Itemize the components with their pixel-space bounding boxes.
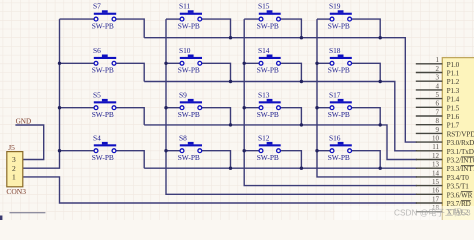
svg-text:13: 13 [432,161,440,169]
wire S15 left terminal to column3 bus [244,18,261,20]
wire S7 right terminal down to row1 net [114,19,144,38]
junction row1 x column4 drop [379,36,382,39]
wire column4 bus (to pin 14 P3.4) [317,19,417,177]
svg-text:CSDN @电子工程53: CSDN @电子工程53 [394,208,471,218]
junction row2 x column4 drop [379,80,382,83]
wire row4 net (to pin 13 P3.3) [144,167,417,169]
svg-text:P1.6: P1.6 [447,113,460,121]
svg-text:SW-PB: SW-PB [178,66,200,75]
svg-text:S17: S17 [329,90,341,99]
svg-text:S14: S14 [258,46,270,55]
pushbutton S14 SW-PB [257,46,281,75]
junction row4 x column2 drop [229,167,232,170]
svg-text:P3.5/T1: P3.5/T1 [447,183,470,191]
pushbutton S5 SW-PB [92,90,117,119]
junction column3 bus x S12 [243,149,246,152]
svg-text:SW-PB: SW-PB [92,66,114,75]
junction column2 bus x S9 [164,106,167,109]
svg-text:S7: S7 [93,2,101,11]
wire S9 right terminal down to row3 net [200,108,231,125]
svg-text:SW-PB: SW-PB [328,21,350,30]
pushbutton S8 SW-PB [178,133,202,162]
wire S16 right terminal down to row4 net [350,151,381,169]
svg-text:S19: S19 [329,2,341,11]
wire S16 left terminal to column4 bus [317,150,332,152]
svg-text:SW-PB: SW-PB [328,110,350,119]
svg-text:P3.1/TxD: P3.1/TxD [447,148,474,156]
wire S6 right terminal down to row2 net [114,63,144,81]
pin 12 stub [416,159,443,161]
svg-text:10: 10 [432,135,440,143]
svg-text:P1.5: P1.5 [447,104,460,112]
pin 5 stub [416,98,443,100]
svg-text:12: 12 [432,152,440,160]
wire S18 left terminal to column4 bus [317,62,332,64]
pin 4 stub [416,89,443,91]
pin 11 stub [416,150,443,152]
pin 2 stub [416,72,443,74]
wire S14 left terminal to column3 bus [244,62,261,64]
svg-text:CON3: CON3 [6,187,26,196]
pin 8 stub [416,124,443,126]
pin 10 stub [416,141,443,143]
svg-text:GND: GND [16,117,32,125]
wire column1 bus (to J5 pin 2) [23,19,60,168]
pin 18 stub [416,211,443,213]
svg-text:SW-PB: SW-PB [257,66,279,75]
svg-text:11: 11 [432,143,439,151]
svg-text:J5: J5 [8,143,15,152]
wire S9 left terminal to column2 bus [166,107,182,109]
wire S8 left terminal to column2 bus [166,150,182,152]
svg-text:S9: S9 [179,90,187,99]
svg-text:SW-PB: SW-PB [92,110,114,119]
junction row4 x column4 drop [379,167,382,170]
svg-text:P1.2: P1.2 [447,78,460,86]
pin 15 stub [416,185,443,187]
svg-text:9: 9 [436,126,440,134]
junction column3 bus x S13 [243,106,246,109]
pushbutton S10 SW-PB [178,46,202,75]
svg-text:SW-PB: SW-PB [328,153,350,162]
svg-text:P3.0/RxD: P3.0/RxD [447,139,474,147]
junction row2 x column2 drop [229,80,232,83]
svg-text:3: 3 [12,155,16,164]
wire S18 right terminal down to row2 net [350,63,381,81]
svg-text:1: 1 [12,173,16,182]
junction column4 bus x S18 [315,62,318,65]
junction column4 bus x S17 [315,106,318,109]
pin 3 stub [416,80,443,82]
svg-text:3: 3 [436,74,440,82]
pin 6 stub [416,106,443,108]
junction column2 bus x S10 [164,62,167,65]
svg-text:P1.1: P1.1 [447,70,460,78]
wire column2 bus (to pin 16 P3.6) [166,19,417,194]
pushbutton S15 SW-PB [257,2,281,31]
svg-text:SW-PB: SW-PB [328,66,350,75]
svg-text:6: 6 [436,100,440,108]
wire S5 right terminal down to row3 net [114,108,144,125]
pushbutton S18 SW-PB [328,46,352,75]
junction row3 x column3 drop [300,123,303,126]
svg-text:SW-PB: SW-PB [178,21,200,30]
svg-text:SW-PB: SW-PB [257,21,279,30]
wire S13 left terminal to column3 bus [244,107,261,109]
svg-text:7: 7 [436,108,440,116]
wire S6 left terminal to column1 bus [60,62,97,64]
wire S17 right terminal down to row3 net [350,108,381,125]
wire row2 net (to pin 11 P3.1) [144,82,417,151]
pin 13 stub [416,167,443,169]
svg-text:16: 16 [432,187,440,195]
junction column1 bus x S6 [58,62,61,65]
wire S7 left terminal to column1 bus [60,18,97,20]
pushbutton S11 SW-PB [178,2,202,31]
pushbutton S12 SW-PB [257,133,281,162]
svg-text:5: 5 [436,91,440,99]
corner mark bottom left [0,216,2,221]
svg-text:RST/VPD: RST/VPD [447,130,474,138]
junction row3 x column4 drop [379,123,382,126]
svg-text:S11: S11 [179,2,191,11]
wire S4 left terminal to column1 bus [60,150,97,152]
svg-text:P3.6/WR: P3.6/WR [447,191,473,199]
junction column2 bus x S8 [164,149,167,152]
junction row3 x column2 drop [229,123,232,126]
svg-text:SW-PB: SW-PB [257,110,279,119]
svg-text:P1.4: P1.4 [447,96,460,104]
wire S15 right terminal down to row1 net [279,19,302,38]
IC header box (MCU pins) [442,58,474,228]
pushbutton S7 SW-PB [92,2,117,31]
pushbutton S16 SW-PB [328,133,352,162]
wire S14 right terminal down to row2 net [279,63,302,81]
wire GND net to J5 pin 3 [15,125,43,160]
wire S8 right terminal down to row4 net [200,151,231,169]
svg-text:P3.3/INT1: P3.3/INT1 [447,165,474,173]
svg-text:14: 14 [432,169,440,177]
svg-text:S6: S6 [93,46,101,55]
pin 7 stub [416,115,443,117]
junction column4 bus x S16 [315,149,318,152]
wire S12 right terminal down to row4 net [279,151,302,169]
svg-text:SW-PB: SW-PB [92,21,114,30]
svg-text:S15: S15 [258,2,270,11]
pin 9 stub [416,132,443,134]
wire row3 net (to pin 12 P3.2) [144,125,417,160]
svg-text:2: 2 [12,164,16,173]
svg-text:P3.4/T0: P3.4/T0 [447,174,470,182]
pin 17 stub [416,202,443,204]
wire S11 right terminal down to row1 net [200,19,231,38]
svg-text:S13: S13 [258,90,270,99]
wire J5 pin 1 to pin 17 P3.7 [23,177,417,203]
svg-text:P1.0: P1.0 [447,61,460,69]
wire S19 right terminal down to row1 net [350,19,381,38]
wire S5 left terminal to column1 bus [60,107,97,109]
pushbutton S9 SW-PB [178,90,202,119]
svg-text:P1.3: P1.3 [447,87,460,95]
wire S4 right terminal down to row4 net [114,151,144,169]
pushbutton S4 SW-PB [92,133,117,162]
pushbutton S19 SW-PB [328,2,352,31]
svg-text:2: 2 [436,65,440,73]
svg-text:S8: S8 [179,133,187,142]
pushbutton S17 SW-PB [328,90,352,119]
pin 16 stub [416,193,443,195]
svg-text:8: 8 [436,117,440,125]
svg-text:S4: S4 [93,133,101,142]
svg-text:S5: S5 [93,90,101,99]
junction row2 x column3 drop [300,80,303,83]
border tick line bottom left [10,212,46,214]
svg-text:P3.2/INT0: P3.2/INT0 [447,157,474,165]
junction column1 bus x S5 [58,106,61,109]
svg-text:4: 4 [436,82,440,90]
wire column3 bus (to pin 15 P3.5) [244,19,417,186]
svg-text:15: 15 [432,178,440,186]
wire S19 left terminal to column4 bus [317,18,332,20]
svg-text:1: 1 [436,56,440,64]
svg-text:S10: S10 [179,46,191,55]
pushbutton S13 SW-PB [257,90,281,119]
wire S12 left terminal to column3 bus [244,150,261,152]
wire S13 right terminal down to row3 net [279,108,302,125]
junction row1 x column2 drop [229,36,232,39]
svg-text:S12: S12 [258,133,270,142]
svg-text:SW-PB: SW-PB [178,153,200,162]
wire S11 left terminal to column2 bus [166,18,182,20]
junction row4 x column3 drop [300,167,303,170]
wire S10 right terminal down to row2 net [200,63,231,81]
watermark haze [335,206,474,220]
wire row1 net (top button row to pin 10 P3.0) [144,38,417,142]
svg-text:S18: S18 [329,46,341,55]
svg-text:SW-PB: SW-PB [178,110,200,119]
junction row1 x column3 drop [300,36,303,39]
wire S17 left terminal to column4 bus [317,107,332,109]
wire S10 left terminal to column2 bus [166,62,182,64]
svg-text:SW-PB: SW-PB [257,153,279,162]
svg-text:17: 17 [432,195,440,203]
pin 1 stub [416,63,443,65]
svg-text:SW-PB: SW-PB [92,153,114,162]
connector J5 CON3 [6,143,26,196]
pin 14 stub [416,176,443,178]
pushbutton S6 SW-PB [92,46,117,75]
svg-text:S16: S16 [329,133,341,142]
junction column3 bus x S14 [243,62,246,65]
svg-text:P1.7: P1.7 [447,122,460,130]
junction column1 bus x S4 [58,149,61,152]
